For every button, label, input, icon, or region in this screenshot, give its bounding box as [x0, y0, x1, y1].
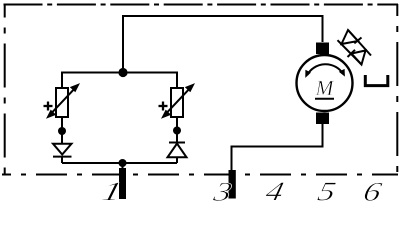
diode V2 (right, cathode up) — [169, 142, 185, 144]
icon bar lower — [348, 50, 356, 57]
wire node to diode V1 — [61, 131, 63, 144]
pin 1 — [119, 168, 126, 199]
underline of M — [315, 98, 334, 100]
label 4 — [264, 183, 284, 201]
wire R1 bottom to node — [61, 117, 63, 131]
wire: resistor bus — [62, 73, 177, 89]
border right — [396, 4, 398, 175]
border bottom — [2, 174, 398, 176]
node dot under R2 — [173, 127, 181, 135]
resistor R2 (variable, right) — [171, 88, 183, 117]
motor bottom terminal — [316, 113, 329, 125]
icon bar upper — [354, 38, 361, 44]
resistor R1 (variable, left) — [56, 88, 68, 117]
plus sign at R2 — [159, 102, 168, 111]
label 3 — [212, 183, 232, 201]
motor M circle — [297, 55, 353, 111]
wire: motor to pin 3 — [232, 124, 323, 172]
label 6 — [363, 183, 383, 201]
wire node to diode V2 — [176, 131, 178, 143]
wiper icon (two diodes, diagonal) — [338, 30, 372, 65]
pin 3 — [229, 170, 236, 199]
border left — [4, 4, 6, 175]
wire: top rail from node A down-left to motor — [123, 16, 323, 72]
motor top terminal — [316, 43, 329, 55]
icon axis line lower-left — [338, 40, 362, 64]
arrow over R1 — [46, 83, 80, 119]
node dot under R1 — [58, 127, 66, 135]
node A (top junction dot) — [118, 68, 127, 77]
wire R2 bottom to node — [176, 117, 178, 131]
label 5 — [317, 183, 336, 201]
plus sign at R1 — [44, 102, 53, 111]
node dot bottom rail / pin 1 — [119, 159, 127, 167]
arrow over R2 — [161, 83, 195, 119]
motor label M — [315, 81, 334, 95]
diode V1 (left, cathode down) — [53, 144, 72, 155]
icon triangle lower — [352, 51, 366, 65]
motor rotation arrow (two-way arc) — [307, 64, 343, 75]
icon triangle upper — [342, 30, 359, 44]
wire: node to pin 1 — [122, 163, 124, 168]
icon axis line upper-right — [348, 30, 371, 56]
bracket symbol (park position) — [365, 75, 388, 86]
wire: bottom rail — [62, 162, 177, 164]
label 1 — [102, 183, 120, 201]
border top — [4, 4, 399, 6]
